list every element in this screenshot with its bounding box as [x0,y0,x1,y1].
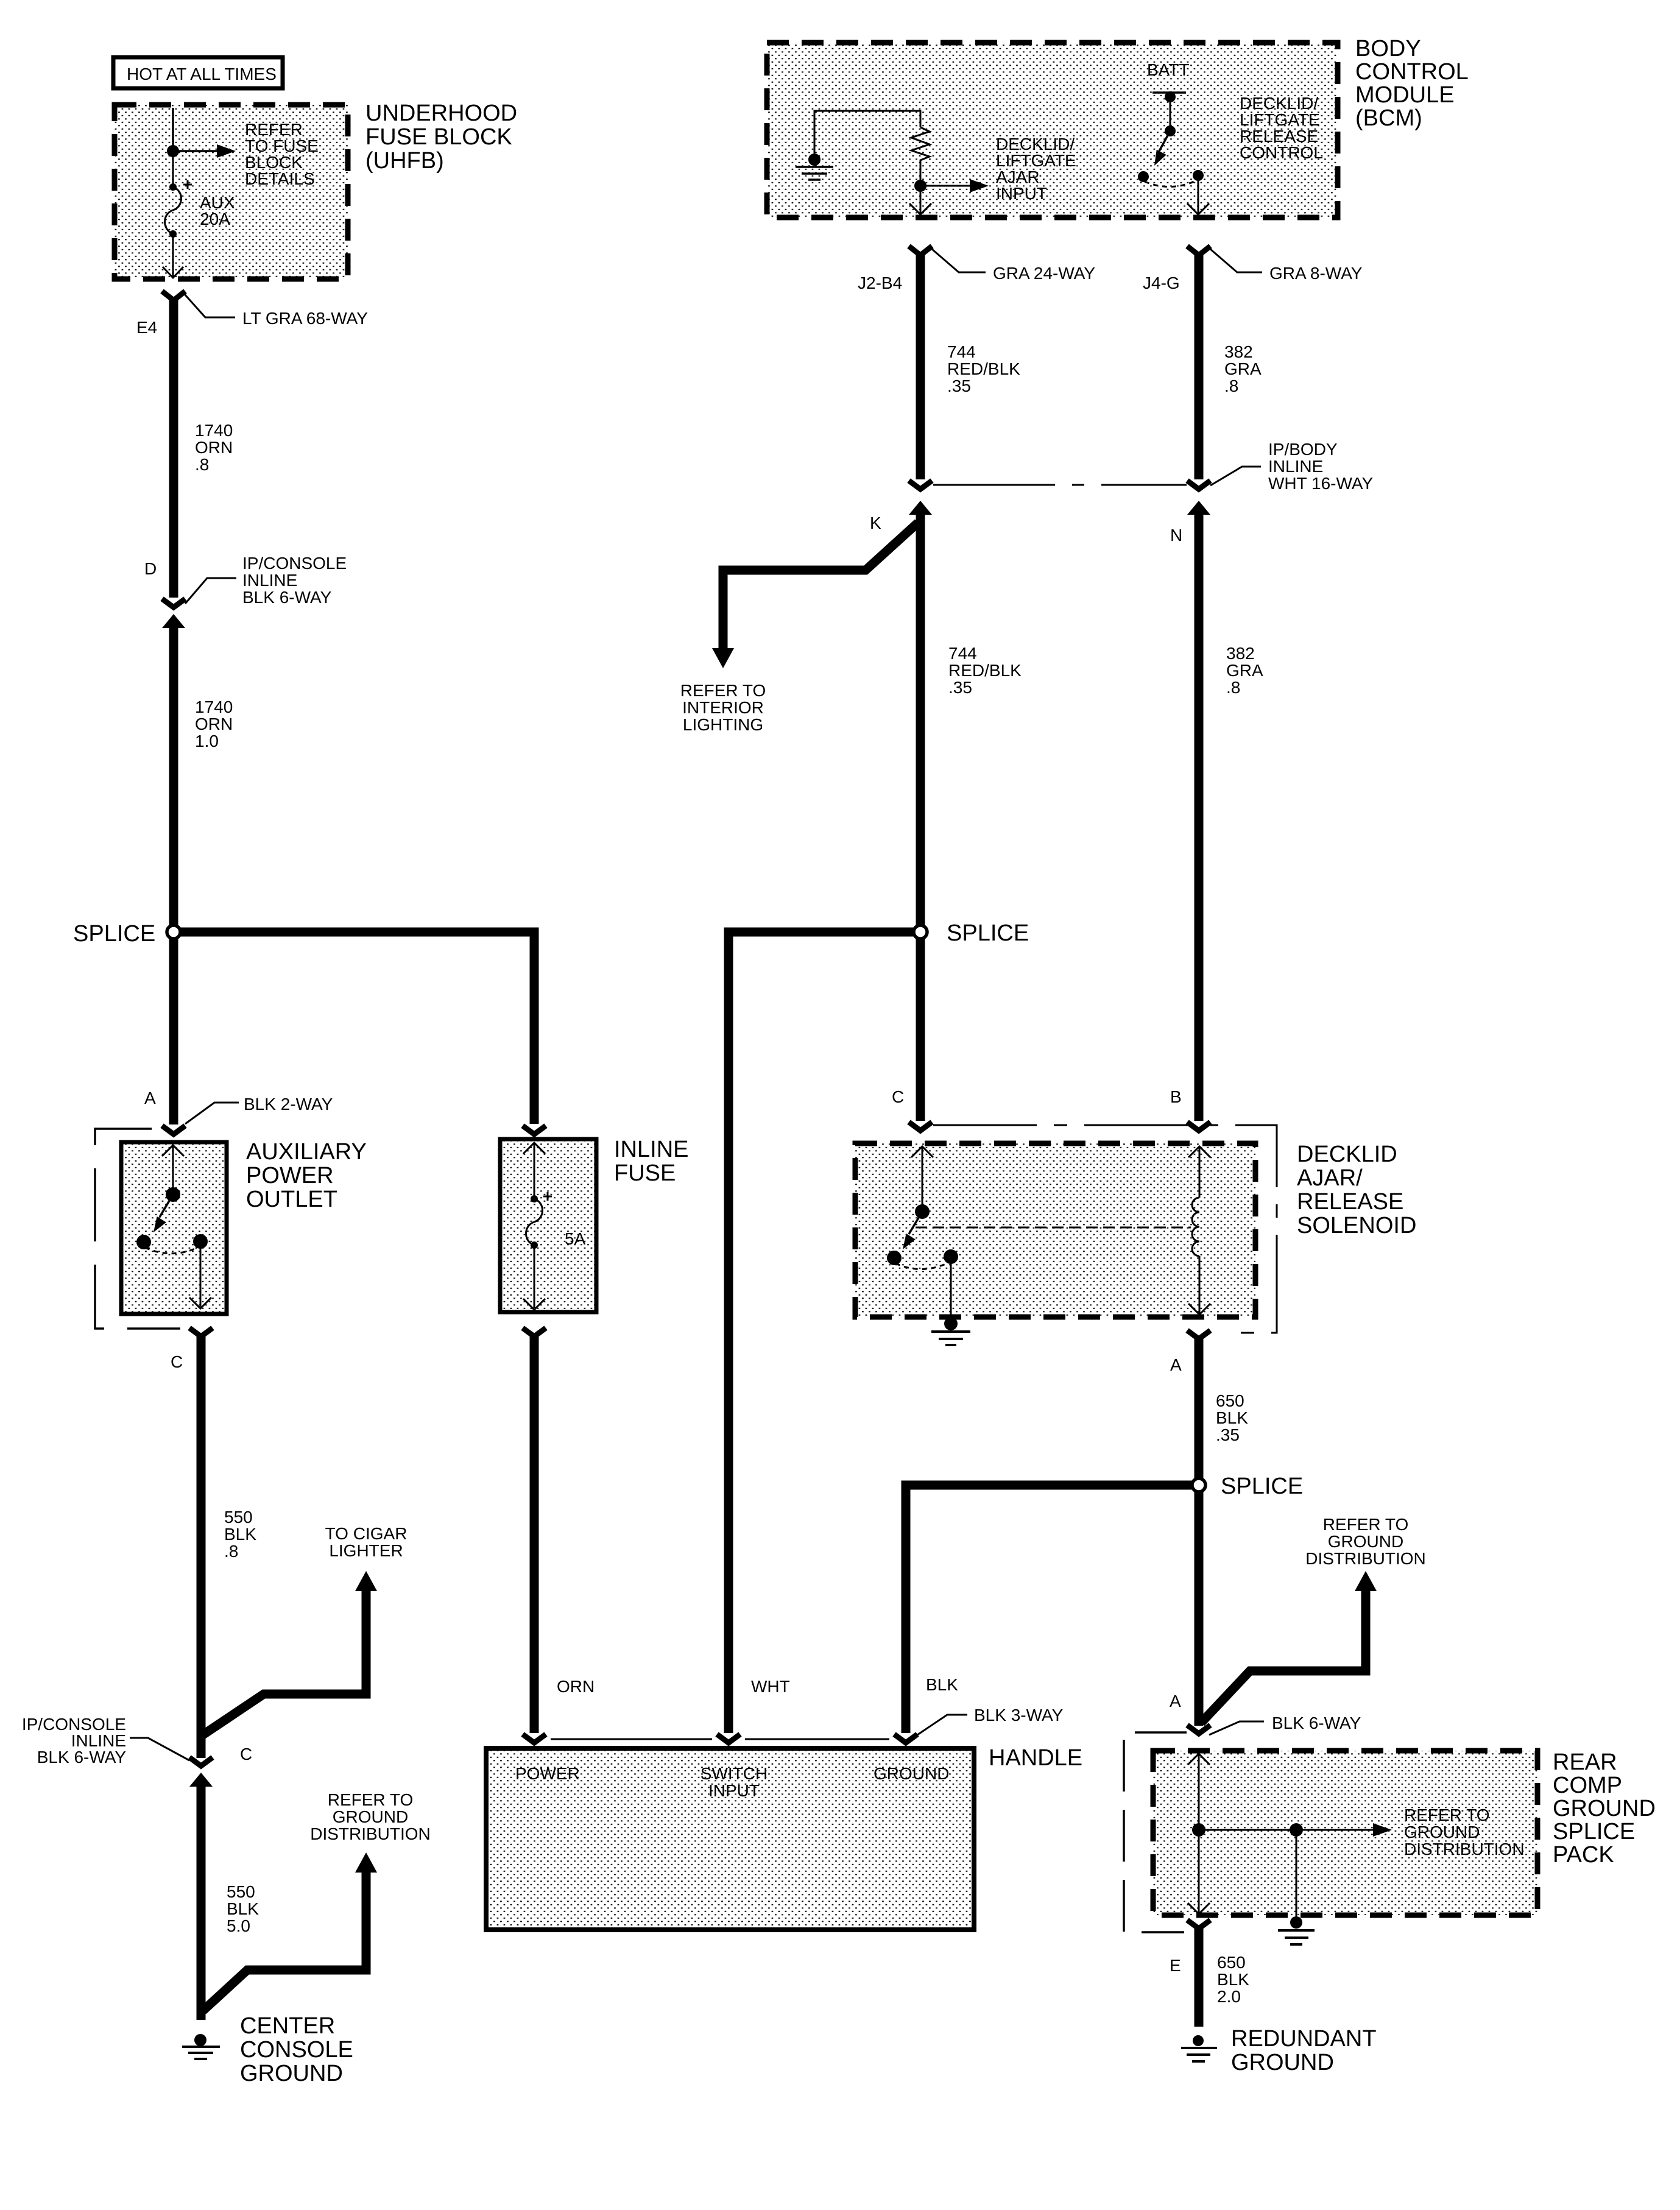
svg-text:FUSE: FUSE [614,1160,676,1186]
svg-text:INPUT: INPUT [708,1781,760,1800]
solenoid switch top arrow [911,1146,933,1157]
svg-text:SPLICE: SPLICE [73,921,155,947]
solenoid ground [931,1317,970,1345]
svg-text:BLK 6-WAY: BLK 6-WAY [242,588,332,607]
REFER TO GROUND DISTRIBUTION label (in box) [1404,1806,1525,1859]
svg-text:650: 650 [1216,1391,1244,1410]
wire 1740 ORN .8 [169,297,178,598]
BODY CONTROL MODULE (BCM) label [1355,36,1469,131]
svg-text:UNDERHOOD: UNDERHOOD [365,101,517,126]
svg-text:E: E [1170,1956,1181,1975]
550 BLK .8 label [224,1508,256,1561]
svg-text:DISTRIBUTION: DISTRIBUTION [310,1824,431,1843]
leader to LT GRA 68-WAY [185,294,235,317]
svg-text:GRA: GRA [1226,661,1263,680]
connector female at handle ground [894,1734,917,1743]
connector IP/BODY inline female right [1187,481,1210,489]
svg-text:GRA: GRA [1224,359,1262,378]
svg-text:J4-G: J4-G [1143,274,1180,292]
decklid release switch blade arrow [1159,131,1170,151]
DECKLID AJAR/RELEASE SOLENOID label [1297,1142,1416,1238]
svg-text:5.0: 5.0 [227,1916,250,1935]
connector E female below splice pack [1187,1920,1210,1929]
splice pack node 2 [1290,1823,1303,1837]
svg-text:IP/CONSOLE: IP/CONSOLE [242,554,347,573]
svg-text:.8: .8 [1224,376,1238,395]
connector D male half [162,614,185,628]
solenoid coil bottom arrow [1199,1256,1201,1314]
IP/CONSOLE INLINE BLK 6-WAY label (bottom left) [22,1715,126,1767]
svg-text:BLK 6-WAY: BLK 6-WAY [1272,1714,1361,1732]
release switch dashed throw arc [1145,180,1197,187]
BCM internal ground [796,154,833,180]
svg-text:.8: .8 [195,455,209,474]
svg-text:GROUND: GROUND [1328,1532,1403,1551]
svg-text:BLK: BLK [1216,1408,1248,1427]
svg-text:382: 382 [1224,342,1253,361]
svg-text:INLINE: INLINE [614,1137,688,1162]
handle box [486,1748,974,1930]
svg-text:A: A [1170,1355,1182,1374]
svg-text:BLK: BLK [227,1899,259,1918]
svg-text:C: C [892,1087,904,1106]
svg-text:B: B [1170,1087,1182,1106]
SWITCH INPUT pin label [701,1764,768,1800]
DECKLID/LIFTGATE RELEASE CONTROL label [1240,94,1323,162]
svg-text:A: A [1170,1692,1181,1710]
svg-text:OUTLET: OUTLET [246,1187,337,1212]
744 RED/BLK .35 label upper [947,342,1020,395]
connector K male half [909,501,932,515]
650 BLK 2.0 label [1217,1953,1249,2006]
svg-text:2.0: 2.0 [1217,1987,1241,2006]
SPLICE 1 horizontal wire to inline fuse [174,932,534,1124]
svg-text:N: N [1170,526,1182,545]
REFER TO FUSE BLOCK DETAILS label [245,120,319,188]
HOT AT ALL TIMES label box [113,57,283,88]
leader to BLK 6-WAY [1209,1721,1264,1735]
svg-text:550: 550 [227,1882,255,1901]
solenoid connector bracket [933,1125,1277,1333]
splice pack ground [1278,1916,1315,1944]
wire 382 GRA .8 upper [1195,252,1204,479]
splice pack horizontal link [1199,1829,1296,1831]
svg-text:BODY: BODY [1355,36,1421,62]
1740 ORN 1.0 label [195,697,233,750]
connector B female at solenoid [1187,1122,1210,1131]
svg-text:744: 744 [947,342,976,361]
center console ground symbol [182,2034,220,2059]
svg-text:1.0: 1.0 [195,732,219,750]
release switch contact right [1193,170,1204,181]
inline connector bracket dashes [933,484,1187,486]
svg-text:A: A [144,1089,156,1107]
svg-text:.8: .8 [1226,678,1240,697]
connector A female below solenoid [1187,1330,1210,1339]
wire 744 RED/BLK .35 lower [916,510,925,1121]
INLINE FUSE label [614,1137,688,1186]
svg-text:REFER TO: REFER TO [1404,1806,1490,1824]
svg-text:ORN: ORN [195,715,233,733]
connector A female at splice pack (BLK 6-WAY) [1187,1725,1210,1734]
wire BLK from splice3 to handle [906,1485,1192,1733]
svg-text:BLK: BLK [926,1675,958,1694]
outlet contact right [193,1234,208,1249]
connector female at handle switch input [717,1734,740,1743]
wire 744 RED/BLK .35 upper [916,252,925,479]
fuse internal top arrow [523,1143,545,1154]
svg-text:BLK 3-WAY: BLK 3-WAY [974,1706,1064,1725]
wire branch to cigar lighter [203,1589,366,1735]
refer-to-fuse-block arrow [173,144,236,158]
splice S3 [1192,1478,1205,1492]
branch to ground distribution (right) [1201,1589,1366,1723]
TO CIGAR LIGHTER label [325,1524,408,1560]
svg-text:GROUND: GROUND [1553,1796,1656,1821]
redundant ground symbol [1181,2035,1217,2061]
svg-text:BLK: BLK [224,1525,256,1544]
branch to interior lighting [723,523,918,651]
fuse AUX 20A [165,151,235,238]
outlet switch blade arrow [160,1195,173,1217]
leader to IP/BODY INLINE [1210,467,1261,485]
svg-text:1740: 1740 [195,421,233,440]
AUXILIARY POWER OUTLET label [246,1139,367,1212]
leader to BLK 3-WAY [917,1715,967,1735]
connector C2 inline female (IP/CONSOLE) [189,1757,213,1766]
svg-text:INLINE: INLINE [242,571,297,590]
outlet internal bottom arrow [200,1241,202,1307]
svg-text:GRA 24-WAY: GRA 24-WAY [993,264,1095,283]
wire inside UHFB [172,108,174,151]
connector female below fuse [523,1328,546,1336]
svg-text:E4: E4 [136,318,157,337]
leader to IP/CONSOLE INLINE [185,578,236,604]
svg-text:CONTROL: CONTROL [1355,59,1469,85]
svg-text:GROUND: GROUND [240,2061,343,2086]
svg-text:744: 744 [948,644,977,663]
splice pack internal vertical [1198,1754,1200,1913]
outlet internal top arrow [162,1145,184,1156]
outlet switch common node [166,1187,180,1202]
solenoid coil top arrow [1188,1146,1210,1157]
svg-text:RED/BLK: RED/BLK [948,661,1022,680]
svg-text:POWER: POWER [515,1764,580,1783]
svg-text:BLK 2-WAY: BLK 2-WAY [244,1095,333,1114]
svg-text:.35: .35 [1216,1425,1240,1444]
svg-text:SPLICE: SPLICE [947,920,1029,946]
svg-text:REAR: REAR [1553,1749,1617,1775]
solenoid switch blade arrow [909,1212,922,1234]
550 BLK 5.0 label [227,1882,259,1935]
solenoid contact left [887,1251,902,1265]
connector female at inline fuse top [523,1126,546,1134]
svg-text:BLK: BLK [1217,1970,1249,1989]
382 GRA .8 label upper [1224,342,1262,395]
svg-text:LIGHTING: LIGHTING [683,715,763,734]
svg-text:J2-B4: J2-B4 [858,274,902,292]
svg-text:GROUND: GROUND [1404,1823,1480,1841]
svg-text:IP/BODY: IP/BODY [1268,440,1338,459]
svg-text:REFER TO: REFER TO [328,1790,414,1809]
svg-text:FUSE BLOCK: FUSE BLOCK [365,124,512,150]
svg-text:382: 382 [1226,644,1255,663]
svg-text:WHT: WHT [751,1677,790,1696]
svg-text:5A: 5A [565,1229,586,1248]
wire 650 BLK 2.0 [1195,1926,1204,2027]
connector J4-G female (GRA 8-WAY) [1187,246,1210,255]
svg-text:.8: .8 [224,1542,238,1561]
connector female at handle power [523,1734,546,1743]
CENTER CONSOLE GROUND label [240,2013,353,2086]
svg-text:RELEASE: RELEASE [1297,1189,1403,1215]
svg-text:GROUND: GROUND [1231,2050,1334,2075]
arrow to UHFB bottom edge [163,234,183,278]
leader from label to connector [130,1738,189,1760]
connector N male half [1187,501,1210,515]
junction node in UHFB [167,145,179,157]
battery feed symbol [1152,91,1186,136]
svg-text:550: 550 [224,1508,253,1527]
svg-text:TO CIGAR: TO CIGAR [325,1524,408,1543]
REDUNDANT GROUND label [1231,2026,1377,2075]
svg-text:SPLICE: SPLICE [1553,1819,1635,1845]
svg-text:PACK: PACK [1553,1842,1614,1868]
svg-text:REFER TO: REFER TO [1323,1515,1409,1534]
leader to GRA 24-WAY [932,249,986,272]
wire ORN to handle [530,1333,539,1733]
svg-text:DECKLID: DECKLID [1297,1142,1397,1167]
IP/CONSOLE INLINE BLK 6-WAY label [242,554,347,607]
decklid ajar/release solenoid box (dashed) [855,1143,1255,1317]
splice pack arrow to ground distribution [1296,1823,1392,1837]
rear comp ground splice pack box (dashed) [1153,1751,1537,1915]
bracket around splice pack [1124,1732,1187,1932]
bracket around auxiliary power outlet [95,1129,180,1329]
splice S1 [167,925,180,939]
leader to BLK 2-WAY [185,1103,239,1124]
resistor in BCM [911,127,930,180]
svg-text:GRA 8-WAY: GRA 8-WAY [1269,264,1363,283]
svg-text:HOT AT ALL TIMES: HOT AT ALL TIMES [127,65,277,83]
wire contact to BCM edge with arrow [1198,181,1199,213]
svg-text:CONTROL: CONTROL [1240,143,1323,162]
svg-text:.35: .35 [948,678,972,697]
body control module BCM (dashed box) [767,43,1338,217]
svg-text:.35: .35 [947,376,971,395]
svg-text:HANDLE: HANDLE [989,1745,1082,1771]
outlet dashed throw arc [145,1247,199,1254]
svg-text:BATT: BATT [1147,60,1189,79]
wire 550 BLK .8 [197,1333,206,1758]
solenoid linkage dash line [916,1227,1191,1229]
auxiliary power outlet box [121,1142,227,1314]
splice pack wire to ground [1296,1830,1297,1918]
svg-text:(UHFB): (UHFB) [365,148,444,174]
splice pack node 1 [1192,1823,1205,1837]
wire branch to ground distribution (left) [203,1870,366,2011]
wire contact to solenoid ground [950,1257,952,1321]
underhood fuse block UHFB (dashed box) [115,105,348,279]
svg-text:REFER TO: REFER TO [680,681,766,700]
svg-text:INPUT: INPUT [996,184,1047,203]
solenoid switch common node [915,1204,930,1219]
svg-text:C: C [171,1352,183,1371]
release switch contact left [1138,171,1149,182]
svg-text:DISTRIBUTION: DISTRIBUTION [1305,1549,1426,1568]
svg-text:REDUNDANT: REDUNDANT [1231,2026,1377,2052]
svg-text:BLK 6-WAY: BLK 6-WAY [37,1748,127,1767]
handle connector bracket lines [551,1739,889,1740]
REFER TO GROUND DISTRIBUTION label (left) [310,1790,431,1843]
svg-text:C: C [240,1745,252,1763]
connector A female at outlet [162,1126,185,1134]
wire ground to resistor [814,111,920,154]
solenoid dashed throw arc [895,1262,950,1269]
svg-text:DISTRIBUTION: DISTRIBUTION [1404,1840,1525,1859]
svg-text:POWER: POWER [246,1163,334,1188]
svg-text:DETAILS: DETAILS [245,169,315,188]
outlet contact left [136,1235,151,1249]
svg-text:650: 650 [1217,1953,1246,1972]
wire node to BCM edge with arrow [920,192,922,213]
decklid ajar input node [914,180,926,192]
inline fuse box [500,1139,596,1312]
svg-text:20A: 20A [200,210,230,228]
REFER TO INTERIOR LIGHTING label [680,681,766,734]
splice S2 [914,925,927,939]
svg-text:(BCM): (BCM) [1355,105,1422,131]
svg-text:SOLENOID: SOLENOID [1297,1213,1416,1238]
svg-text:RED/BLK: RED/BLK [947,359,1020,378]
1740 ORN .8 label [195,421,233,474]
svg-text:D: D [144,559,157,578]
svg-text:WHT 16-WAY: WHT 16-WAY [1268,474,1373,493]
svg-text:AUXILIARY: AUXILIARY [246,1139,367,1165]
svg-text:ORN: ORN [195,438,233,457]
connector C female below outlet [189,1328,213,1336]
connector IP/BODY inline female left [909,481,932,489]
REFER TO GROUND DISTRIBUTION label (right) [1305,1515,1426,1568]
leader to GRA 8-WAY [1210,249,1262,272]
svg-text:INTERIOR: INTERIOR [682,698,764,717]
svg-text:CENTER: CENTER [240,2013,335,2039]
wire splice1 to outlet A [169,932,178,1124]
svg-text:INLINE: INLINE [1268,457,1323,476]
744 RED/BLK .35 label lower [948,644,1022,697]
svg-text:CONSOLE: CONSOLE [240,2037,353,2063]
IP/BODY INLINE WHT 16-WAY label [1268,440,1373,493]
svg-text:SWITCH: SWITCH [701,1764,768,1783]
svg-text:GROUND: GROUND [874,1764,949,1783]
splice pack internal bottom arrow [1188,1903,1210,1914]
svg-text:COMP: COMP [1553,1773,1622,1798]
decklid ajar input arrow [920,179,989,192]
svg-text:GROUND: GROUND [333,1807,408,1826]
fuse element 5A [526,1192,586,1249]
splice pack internal top arrow [1188,1754,1210,1765]
svg-text:1740: 1740 [195,697,233,716]
382 GRA .8 label lower [1226,644,1263,697]
wire 1740 ORN 1.0 [169,624,178,932]
svg-text:LT GRA 68-WAY: LT GRA 68-WAY [242,309,368,328]
solenoid contact right [944,1249,958,1264]
svg-text:AJAR/: AJAR/ [1297,1165,1363,1191]
svg-text:SPLICE: SPLICE [1221,1474,1303,1499]
connector C female at solenoid [909,1122,932,1131]
svg-text:K: K [870,514,881,532]
wire 382 GRA .8 lower [1195,510,1204,1121]
DECKLID/LIFTGATE AJAR INPUT label [996,135,1076,203]
wire WHT from splice2 to handle [729,932,920,1733]
650 BLK .35 label [1216,1391,1248,1444]
wire 550 BLK 5.0 [197,1782,206,2020]
solenoid coil [1192,1198,1199,1256]
svg-text:LIGHTER: LIGHTER [329,1541,403,1560]
UNDERHOOD FUSE BLOCK (UHFB) label [365,101,517,174]
connector E4 female (LT GRA 68-WAY) [162,291,185,300]
connector J2-B4 female (GRA 24-WAY) [909,246,932,255]
wire 650 BLK .35 [1195,1336,1204,1726]
svg-text:MODULE: MODULE [1355,82,1455,108]
REAR COMP GROUND SPLICE PACK label [1553,1749,1656,1868]
fuse internal bottom arrow [534,1245,535,1308]
connector C2 male half [189,1773,213,1787]
svg-text:ORN: ORN [557,1677,595,1696]
connector D female (IP/CONSOLE inline) [162,599,185,607]
